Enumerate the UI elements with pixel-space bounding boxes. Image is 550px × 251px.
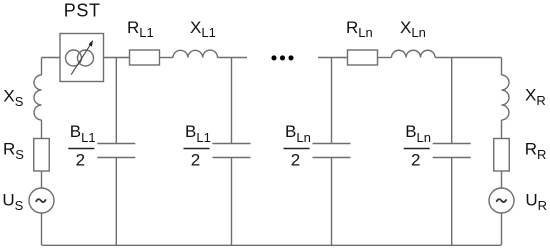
svg-text:BL1: BL1: [185, 122, 211, 145]
svg-text:2: 2: [191, 150, 200, 169]
svg-text:XL1: XL1: [190, 18, 216, 40]
svg-text:RL1: RL1: [127, 18, 154, 40]
svg-text:US: US: [2, 191, 23, 214]
svg-text:2: 2: [291, 150, 300, 169]
svg-text:XS: XS: [3, 87, 23, 110]
svg-text:BLn: BLn: [405, 122, 431, 145]
svg-text:RLn: RLn: [346, 18, 373, 40]
svg-text:RR: RR: [525, 140, 547, 163]
svg-text:XLn: XLn: [400, 18, 426, 40]
svg-text:BLn: BLn: [285, 122, 311, 145]
svg-text:PST: PST: [64, 1, 101, 21]
svg-text:2: 2: [76, 150, 85, 169]
svg-text:2: 2: [411, 150, 420, 169]
svg-text:RS: RS: [3, 140, 24, 163]
svg-text:UR: UR: [525, 191, 547, 214]
svg-text:XR: XR: [525, 86, 546, 109]
svg-text:BL1: BL1: [70, 122, 96, 145]
